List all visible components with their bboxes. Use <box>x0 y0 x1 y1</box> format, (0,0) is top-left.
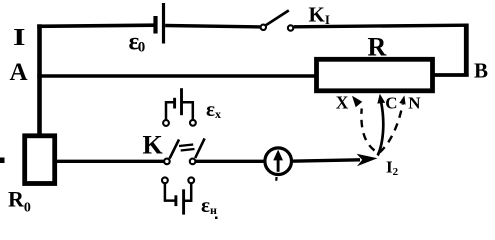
speck at left edge <box>0 158 5 164</box>
galvanometer circle <box>265 148 292 175</box>
wire: top horizontal right segment to corner <box>294 25 466 27</box>
dashed curve to X tap <box>361 109 374 151</box>
wire: galvanometer to arrowhead <box>291 160 360 161</box>
arrowhead X tap <box>352 96 362 108</box>
cell en long plate <box>182 189 185 214</box>
cell en right terminal <box>188 177 194 183</box>
resistor R0 box <box>25 136 55 184</box>
galvanometer needle head <box>273 150 283 161</box>
arrowhead at I2 <box>357 154 378 167</box>
tick below galvanometer <box>275 177 278 181</box>
cell ex left lead <box>166 102 174 120</box>
cell en right lead <box>185 184 192 201</box>
svg-text:R0: R0 <box>8 187 31 216</box>
svg-text:R: R <box>368 33 387 62</box>
arrowhead N tap <box>399 95 405 104</box>
svg-text:A: A <box>10 59 28 86</box>
switch K right blade <box>195 138 204 158</box>
svg-text:I: I <box>13 25 26 51</box>
speck below en <box>215 217 218 220</box>
wire: top horizontal left segment to battery <box>37 25 153 26</box>
cell ex left terminal <box>163 120 169 126</box>
solid curve to C tap <box>378 103 384 156</box>
battery e0 long plate <box>162 3 165 44</box>
resistor R box <box>317 59 433 91</box>
battery e0 short plate <box>153 16 157 34</box>
wire: switch K to galvanometer <box>196 160 267 163</box>
switch K left blade <box>170 140 179 159</box>
svg-text:I2: I2 <box>386 158 399 179</box>
switch K right contact <box>190 159 196 165</box>
wire: B junction horizontal from box R <box>435 73 469 77</box>
cell en short plate <box>174 195 177 206</box>
svg-text:ε0: ε0 <box>129 29 146 56</box>
cell en left terminal <box>162 177 168 183</box>
svg-text:B: B <box>474 59 488 83</box>
svg-text:K: K <box>143 131 164 160</box>
svg-text:N: N <box>408 94 421 113</box>
svg-text:C: C <box>385 94 397 113</box>
cell ex long plate <box>180 88 183 115</box>
switch K link bar lower <box>181 149 195 151</box>
switch K1 left contact <box>261 25 266 30</box>
svg-text:εx: εx <box>206 97 221 121</box>
wire: top-left vertical bus from top wire down to R0 <box>37 24 42 136</box>
svg-text:εн: εн <box>201 193 217 217</box>
switch K link bar upper <box>179 145 193 147</box>
wire: right vertical down to B junction <box>464 24 469 77</box>
switch K left contact <box>164 159 170 165</box>
cell ex right terminal <box>190 120 196 126</box>
cell ex right lead <box>183 102 193 119</box>
galvanometer needle shaft <box>277 155 280 172</box>
cell en left lead <box>165 184 175 201</box>
svg-text:X: X <box>336 93 349 113</box>
wire: A horizontal to box R <box>37 74 315 77</box>
switch K1 blade <box>266 10 289 25</box>
wire: R0 to switch K <box>56 160 164 163</box>
switch K1 right contact <box>288 25 293 30</box>
arrowhead C tap <box>377 94 385 104</box>
svg-text:KI: KI <box>309 3 330 28</box>
dashed curve to N tap <box>380 104 403 153</box>
cell ex short plate <box>173 98 176 109</box>
wire: top horizontal mid segment battery to switch K1 <box>165 26 261 27</box>
